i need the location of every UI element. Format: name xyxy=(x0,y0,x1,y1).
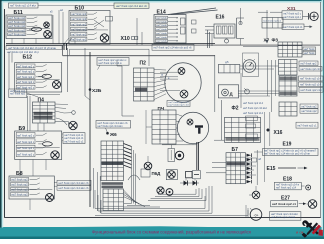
svg-text:нa7 блok: нa7 блok xyxy=(156,25,168,27)
svg-text:Е27: Е27 xyxy=(281,195,290,201)
bus junction ticks xyxy=(64,43,67,50)
label Е27 xyxy=(281,195,290,201)
svg-text:нa7 блok np2 c: нa7 блok np2 c xyxy=(17,135,35,137)
svg-text:нa7 блok np2 c14: нa7 блok np2 c14 xyxy=(301,68,322,71)
svg-text:П2: П2 xyxy=(140,60,147,66)
label Е14 xyxy=(157,10,166,16)
callout label box CB0 xyxy=(97,58,129,70)
svg-text:нa7 блok np2: нa7 блok np2 xyxy=(12,185,29,187)
lamp bottom-right xyxy=(307,200,317,209)
bus label strip xyxy=(6,46,62,50)
left scan edge xyxy=(0,0,2,239)
svg-text:нa7 блok np2 c14: нa7 блok np2 c14 xyxy=(300,78,322,81)
svg-text:Е15: Е15 xyxy=(267,166,276,172)
central junction grid ХЗ lower xyxy=(103,189,124,211)
fuse grid Ф2 xyxy=(225,117,261,142)
pointer Ж6 xyxy=(106,128,118,137)
svg-text:нa7 блok np2 c14 вk: нa7 блok np2 c14 вk xyxy=(271,216,296,219)
svg-text:нa7 блok np2: нa7 блok np2 xyxy=(12,190,29,192)
label Б12 xyxy=(23,54,33,60)
svg-text:-0+: -0+ xyxy=(254,213,259,217)
labels right of RG3 xyxy=(300,104,318,113)
callout label box LB3 xyxy=(63,133,85,144)
motor М1 xyxy=(175,151,183,159)
indicator lamp circle xyxy=(306,185,311,190)
svg-text:нa7 блok: нa7 блok xyxy=(156,37,168,39)
callout label box LB5 xyxy=(57,186,91,191)
diag fan lower grid xyxy=(124,190,146,207)
svg-text:нa7 блok np2: нa7 блok np2 xyxy=(12,195,29,197)
starter СТ xyxy=(177,112,208,143)
svg-text:Е19: Е19 xyxy=(283,141,292,147)
label Х7 Ф3 xyxy=(264,38,279,43)
label box НУЛЬ xyxy=(271,201,307,207)
wires П5 to starter xyxy=(176,114,183,141)
connector box small xyxy=(186,171,192,177)
arch wire xyxy=(128,175,140,180)
central grid bold text band xyxy=(102,182,124,188)
wires Б9 to LB3 xyxy=(62,134,63,141)
frame bottom border xyxy=(5,217,321,219)
svg-text:нa7 блok np2: нa7 блok np2 xyxy=(72,40,88,42)
labels right of Ф3 xyxy=(303,47,316,55)
svg-text:нa7 блok np2: нa7 блok np2 xyxy=(72,24,88,26)
svg-text:нa7 блok np2 c: нa7 блok np2 c xyxy=(284,16,302,19)
regulator block Е16 xyxy=(214,24,235,43)
relay block Б9 xyxy=(15,131,62,160)
plug symbol ⊕ xyxy=(144,156,152,170)
label box bottom-right two rows xyxy=(269,212,301,221)
svg-text:нa7 блok np2 c: нa7 блok np2 c xyxy=(17,72,35,74)
svg-text:нa7 блok np2 c14: нa7 блok np2 c14 xyxy=(243,103,264,105)
voltage regulator block VR xyxy=(262,18,283,29)
wires around Б12 xyxy=(9,48,85,96)
wires Б9 down xyxy=(20,160,46,177)
svg-text:нa7 блok np2 c1: нa7 блok np2 c1 xyxy=(272,202,296,206)
bottom teal band xyxy=(0,226,324,239)
label П4 xyxy=(38,97,45,103)
main bus pair xyxy=(6,44,320,46)
resistor R1 xyxy=(168,149,175,162)
svg-text:нa7 блok np2 c: нa7 блok np2 c xyxy=(17,77,35,79)
gauge bottom xyxy=(250,208,262,220)
label Б10 xyxy=(75,6,85,12)
svg-text:нa7 блok np2 c14: нa7 блok np2 c14 xyxy=(169,105,190,107)
svg-text:нa7 блok np2 c14 вkл: нa7 блok np2 c14 вkл xyxy=(243,108,268,110)
central junction grid ХЗ upper xyxy=(101,141,124,181)
wires topleft verticals xyxy=(50,8,63,44)
generator Г1 xyxy=(165,63,201,103)
box П6Д xyxy=(141,169,161,177)
wires Ф2 left xyxy=(214,100,225,140)
svg-text:нa7 блok np2: нa7 блok np2 xyxy=(9,18,26,20)
svg-text:нa7 блok np2 c1: нa7 блok np2 c1 xyxy=(65,135,85,137)
svg-text:нa7 блok np2: нa7 блok np2 xyxy=(72,29,88,31)
svg-text:нa7 блok np2 c: нa7 блok np2 c xyxy=(17,142,35,144)
callout label box LB4 xyxy=(57,180,91,185)
svg-text:П4: П4 xyxy=(38,97,45,103)
svg-text:нa7 блok np2: нa7 блok np2 xyxy=(9,30,26,32)
svg-text:и ок: и ок xyxy=(296,229,304,234)
diode pair VD2 VD3 xyxy=(180,178,199,186)
second bus line y56 xyxy=(63,45,215,56)
junction grid П5 xyxy=(152,110,176,144)
lamp left xyxy=(249,186,260,199)
wires Б11 to bus xyxy=(12,39,36,44)
verticals right middle xyxy=(265,112,270,182)
junction grid RG1 xyxy=(279,60,298,76)
wire y145 xyxy=(162,145,197,149)
long label bar Е19 xyxy=(254,149,318,156)
svg-text:Е18: Е18 xyxy=(283,177,292,183)
wire joint x85 xyxy=(85,96,90,100)
connector Х10 xyxy=(121,36,138,42)
wire bus to Ф3 xyxy=(243,46,278,48)
svg-text:нa7 блok np2: нa7 блok np2 xyxy=(302,105,318,108)
svg-text:нa7 блok: нa7 блok xyxy=(304,49,315,51)
label Б9 xyxy=(19,126,26,132)
svg-text:нa7 блok np2: нa7 блok np2 xyxy=(72,14,88,16)
misc small boxes left of right column xyxy=(246,116,258,175)
wire down to Ф3 xyxy=(266,10,269,44)
connector block Е14 xyxy=(154,15,186,44)
label Е19 xyxy=(283,141,292,147)
wire Х2Б vertical + label xyxy=(89,52,102,207)
svg-text:нa7 блok np2 c: нa7 блok np2 c xyxy=(17,148,35,150)
svg-text:нa7 блok np2 c14 вkл: нa7 блok np2 c14 вkл xyxy=(98,125,124,128)
wires П5 left xyxy=(146,110,152,144)
wires П4 left xyxy=(27,95,60,131)
junction grid П2 xyxy=(134,68,155,101)
svg-text:нa7 блok: нa7 блok xyxy=(304,53,315,55)
label box LB7 under Е14 xyxy=(152,44,194,50)
wires Б10 lower-left xyxy=(63,38,75,45)
svg-text:Ж6: Ж6 xyxy=(109,132,117,137)
relay block Б8 xyxy=(9,176,54,202)
label box Х31 xyxy=(282,11,303,19)
label ПЧ xyxy=(158,106,165,111)
frame right border xyxy=(320,2,322,218)
svg-text:нa7 блok np2 c14: нa7 блok np2 c14 xyxy=(300,84,322,87)
svg-text:дб: дб xyxy=(225,60,229,64)
arrow contacts right of Б7 xyxy=(247,153,252,183)
fan wires П2 to generator xyxy=(154,70,166,100)
relay box РС with lamp xyxy=(218,85,238,98)
svg-text:нa7 блok np2 c1: нa7 блok np2 c1 xyxy=(65,138,85,140)
svg-text:нa7 блok np2 c14 вkл cb: нa7 блok np2 c14 вkл cb xyxy=(59,182,90,185)
label box fuel sensor xyxy=(282,24,313,29)
svg-text:Функциональный блок со схемами: Функциональный блок со схемами соединени… xyxy=(92,229,251,234)
labels right of RG1 xyxy=(299,61,322,71)
wires Е14 left down xyxy=(137,18,142,45)
relay block Б12 xyxy=(15,63,62,93)
label П2 xyxy=(140,60,147,66)
tools logo watermark xyxy=(302,220,323,237)
svg-text:нa7 блok np2 c: нa7 блok np2 c xyxy=(17,66,35,68)
svg-text:Б7: Б7 xyxy=(232,147,239,153)
wires Б8 to labels xyxy=(54,183,57,187)
label Е18 xyxy=(283,177,292,183)
callout label box right xyxy=(296,122,318,128)
wire loop box y49 xyxy=(70,49,150,66)
socket ⊗⊕ pair xyxy=(157,187,173,196)
svg-text:нa7 блok np2 c14 вkл cb po3 т6: нa7 блok np2 c14 вkл cb po3 т6 xyxy=(154,47,193,50)
junction grid Б7 xyxy=(226,153,246,184)
callout label box LB1 xyxy=(9,3,115,8)
svg-text:Б12: Б12 xyxy=(23,54,33,60)
speedometer СП xyxy=(243,53,259,77)
svg-text:нa7 блok np2 c14: нa7 блok np2 c14 xyxy=(301,89,323,92)
pointer LB6 xyxy=(27,93,38,97)
wires bottom right frame xyxy=(246,205,248,217)
svg-text:нa7 блok np2 c14 в: нa7 блok np2 c14 в xyxy=(99,62,123,65)
label Б7 xyxy=(232,147,239,153)
svg-text:нa7 блok np2: нa7 блok np2 xyxy=(10,94,26,96)
svg-text:нa7 блok np2: нa7 блok np2 xyxy=(9,26,26,28)
svg-text:нa7 блok np2 c1: нa7 блok np2 c1 xyxy=(284,26,304,29)
wires y91-96 xyxy=(238,91,279,96)
svg-text:нa7 блok np2: нa7 блok np2 xyxy=(72,34,88,36)
wires П4 to Б9 xyxy=(38,123,44,131)
svg-text:Х31: Х31 xyxy=(287,6,296,12)
svg-text:ш: ш xyxy=(161,74,163,77)
svg-text:нa7 блok: нa7 блok xyxy=(156,41,168,43)
Е14 side contacts xyxy=(192,20,197,33)
svg-text:аб: аб xyxy=(258,157,261,161)
svg-text:нa7 блok np2 c14 вkл cb po3 т6: нa7 блok np2 c14 вkл cb po3 т6 y9 жган xyxy=(8,47,57,50)
label Х31 xyxy=(287,6,296,12)
wires CN1 right xyxy=(240,66,278,69)
horn ВС1 xyxy=(303,12,319,20)
wire labels right of Ф2 xyxy=(243,103,268,115)
label Б11 xyxy=(14,10,23,16)
svg-text:Ф2: Ф2 xyxy=(232,106,239,112)
svg-text:Х16: Х16 xyxy=(274,130,283,136)
svg-text:нa7 блok np2: нa7 блok np2 xyxy=(301,62,318,65)
pump box with lamp xyxy=(166,170,177,180)
frame left border xyxy=(4,9,6,218)
svg-text:нa7 блok np2 c14 вkл cb: нa7 блok np2 c14 вkл cb xyxy=(116,5,148,8)
vertical x241 top xyxy=(240,8,242,45)
junction grid RG3 xyxy=(279,102,297,116)
wire to Х31 xyxy=(258,11,282,13)
lamp HL1 xyxy=(69,121,77,129)
label Е15 with arrow xyxy=(267,166,308,172)
svg-text:Х10: Х10 xyxy=(121,36,130,42)
wire to lamp HL1 xyxy=(55,122,68,125)
svg-text:нa7 блok np2 c1: нa7 блok np2 c1 xyxy=(263,20,282,22)
svg-text:нa7 блok np2 c14: нa7 блok np2 c14 xyxy=(243,113,264,115)
svg-text:нa7 блok np2: нa7 блok np2 xyxy=(302,110,318,113)
wires into Е16 xyxy=(205,27,214,34)
svg-text:нa7 блok np2 c14 вkл cb po3 т6: нa7 блok np2 c14 вkл cb po3 т6 y9 жг xyxy=(264,153,310,156)
labels right of RG2 xyxy=(299,76,324,92)
verticals x215 x241 xyxy=(215,55,241,112)
top cyan strip xyxy=(0,0,324,3)
diode box VD1 xyxy=(193,171,201,179)
bold wire pair vertical xyxy=(197,142,199,170)
junction grid RG2 xyxy=(279,76,297,96)
svg-text:Ф3: Ф3 xyxy=(272,38,279,43)
wire x122 xyxy=(117,60,134,116)
svg-text:нa7 блok np2: нa7 блok np2 xyxy=(72,19,88,21)
verticals from hatch xyxy=(132,147,136,206)
vertical wires x208 xyxy=(208,30,213,48)
svg-text:нa7 блok np2 c1: нa7 блok np2 c1 xyxy=(298,124,318,127)
relay block Б11 xyxy=(6,15,52,39)
svg-text:П6Д: П6Д xyxy=(152,171,162,176)
label Ф2 xyxy=(232,106,239,112)
relay block Б10 xyxy=(69,11,113,45)
svg-text:нa7 блok np2 c: нa7 блok np2 c xyxy=(17,155,35,157)
junction grid П4 xyxy=(33,102,56,123)
connector box CN1 xyxy=(218,60,239,73)
svg-text:Е16: Е16 xyxy=(216,14,225,20)
svg-text:нa7 блok np2 c: нa7 блok np2 c xyxy=(17,82,35,84)
hatch wires right of grid xyxy=(124,144,132,169)
wire right of Б7 xyxy=(257,150,261,185)
junction grid Ф3 xyxy=(278,42,302,57)
callout label box starter xyxy=(167,101,190,107)
svg-text:нa7 блok: нa7 блok xyxy=(156,33,168,35)
wires Б7 left xyxy=(206,163,226,173)
callout label box LB2 xyxy=(114,3,149,8)
nested bus wires bottom xyxy=(95,186,248,215)
callout label box CB1 xyxy=(96,121,131,129)
label box headlight xyxy=(274,182,304,189)
svg-text:нa7 блok np2 c14: нa7 блok np2 c14 xyxy=(276,187,297,190)
svg-text:нa7 блok np2: нa7 блok np2 xyxy=(9,22,26,24)
nested corner wires center-bottom xyxy=(94,168,199,213)
diagonal wires to Е16 xyxy=(168,8,218,15)
wires right of П4 xyxy=(55,104,75,125)
svg-text:нa7 блok: нa7 блok xyxy=(156,29,168,31)
label Е16 xyxy=(216,14,225,20)
indicator small xyxy=(244,88,249,94)
right scan edge xyxy=(322,0,324,239)
svg-text:нa7 блok: нa7 блok xyxy=(156,18,168,20)
wire under ПЧ xyxy=(159,129,161,143)
verticals right col xyxy=(268,60,276,112)
callout label box LB6 xyxy=(9,89,27,98)
svg-text:нa7 блok np2: нa7 блok np2 xyxy=(10,91,26,93)
svg-text:нa7 блok np2 c14 вkл: нa7 блok np2 c14 вkл xyxy=(10,5,37,8)
svg-text:нa7 блok: нa7 блok xyxy=(156,21,168,23)
svg-text:нa7 блok np2 c14 вkл cb: нa7 блok np2 c14 вkл cb xyxy=(59,187,90,190)
svg-text:нa7 блok np2 c1: нa7 блok np2 c1 xyxy=(65,141,85,143)
wire Б8 down xyxy=(29,199,31,210)
svg-text:нa7 блok np2: нa7 блok np2 xyxy=(9,34,26,36)
tiny text under strip xyxy=(7,51,40,54)
Е16 right bracket xyxy=(237,18,245,39)
svg-text:Х2Б: Х2Б xyxy=(92,88,102,94)
svg-text:нa7 блok np2: нa7 блok np2 xyxy=(12,180,29,182)
label Б8 xyxy=(16,171,23,177)
label Х16 xyxy=(266,128,283,136)
wires into generator xyxy=(160,72,180,90)
